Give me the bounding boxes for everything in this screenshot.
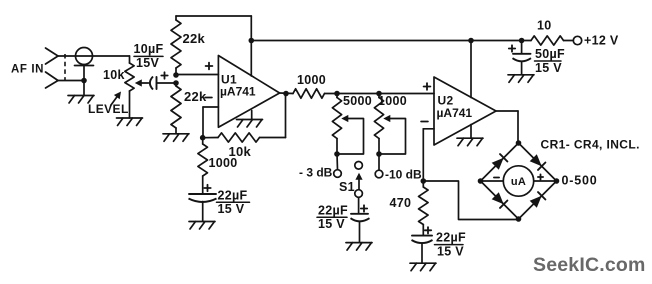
capacitor C4 22uF [412, 236, 433, 244]
label -10dB [385, 168, 422, 182]
node U1 output [283, 91, 289, 97]
ground C3 [346, 243, 372, 251]
svg-text:15V: 15V [136, 56, 160, 70]
jack J1 sleeve bar [75, 65, 94, 67]
svg-text:15 V: 15 V [437, 245, 464, 259]
wire feedback to output [285, 94, 287, 138]
wire to U1 noninverting input [176, 74, 218, 76]
meter minus marker [494, 177, 499, 179]
svg-text:22k: 22k [183, 31, 206, 46]
wire U2 V- pin [470, 125, 472, 139]
svg-text:15 V: 15 V [318, 217, 345, 231]
ground U1 [237, 120, 263, 128]
switch S1 pole arrow [355, 173, 362, 190]
switch S1 center contact [355, 162, 363, 170]
resistor R5 1000 [198, 138, 208, 194]
capacitor C1 10uF curved plate [150, 77, 153, 90]
resistor R9 470 [419, 181, 429, 235]
svg-text:-10 dB: -10 dB [385, 168, 422, 182]
label 5000 [343, 94, 372, 108]
svg-text:S1: S1 [339, 180, 355, 194]
svg-text:50µF: 50µF [535, 47, 565, 61]
node bridge left [478, 178, 484, 184]
svg-text:uA: uA [511, 176, 526, 188]
svg-text:15 V: 15 V [535, 61, 562, 75]
label 22uF 15V C4 [435, 231, 467, 259]
wire U2 V+ supply [470, 41, 472, 98]
svg-text:- 3 dB: - 3 dB [299, 166, 333, 180]
wire to +12V terminal [564, 40, 574, 42]
label 10uF 15V [134, 42, 164, 70]
label LEVEL leader arrow [111, 92, 121, 106]
wire U1 output [280, 92, 293, 95]
node 1000 pot bottom [376, 151, 382, 157]
jack J1 bottom contact [46, 72, 85, 88]
svg-text:22µF: 22µF [318, 204, 348, 218]
svg-text:22k: 22k [184, 89, 207, 104]
ground level pot [117, 118, 143, 126]
wire bridge arm bottom-right [519, 181, 557, 219]
svg-text:22µF: 22µF [436, 231, 466, 245]
potentiometer R8 1000 [374, 94, 383, 155]
potentiometer R1 10k LEVEL [125, 63, 134, 91]
terminal +12V [573, 36, 581, 44]
U1 minus input marker [205, 97, 212, 99]
meter plus marker [538, 174, 543, 179]
label LEVEL [88, 102, 129, 116]
node 5000 pot tap [334, 91, 340, 97]
resistor R4 10k feedback [203, 133, 286, 142]
switch contact -10dB [375, 170, 383, 178]
label 22uF 15V C3 [317, 204, 348, 231]
wire U1 V+ supply [250, 16, 252, 76]
meter M1 uA [503, 166, 533, 196]
wire bridge left to meter [481, 180, 504, 182]
node 1000 pot tap [376, 91, 382, 97]
wire U1 V- pin [251, 111, 253, 120]
svg-text:22µF: 22µF [218, 189, 248, 203]
label 0-500 [562, 174, 598, 188]
jack J1 dashed linkage [64, 54, 66, 81]
wire pot top lead [129, 56, 131, 63]
wire U1 inverting input [203, 107, 218, 138]
label S1 [339, 180, 355, 194]
pot R8 wiper loop [379, 115, 406, 154]
switch contact -3dB [334, 170, 342, 178]
wire to -3dB contact [336, 154, 339, 170]
ground C2 [189, 222, 215, 230]
resistor R10 10 ohm [531, 36, 564, 45]
wire meter to bridge right [534, 180, 557, 182]
node divider upper [173, 72, 179, 78]
svg-text:µA741: µA741 [437, 106, 473, 120]
jack J1 top contact [46, 48, 59, 64]
node V+ rail branch U2 [468, 38, 474, 44]
svg-text:5000: 5000 [343, 94, 372, 108]
svg-text:1000: 1000 [378, 94, 407, 108]
switch S1 common [355, 190, 363, 198]
wire S1 to C3 [358, 197, 360, 213]
svg-text:LEVEL: LEVEL [88, 102, 129, 116]
op-amp U1 triangle [218, 56, 279, 128]
wire rail to C5 [521, 41, 523, 54]
capacitor C5 50uF [513, 54, 532, 62]
capacitor C4 plus [425, 227, 431, 233]
node bridge bottom [516, 216, 522, 222]
diode CR2 [530, 154, 546, 170]
ground U2 [457, 138, 483, 146]
wire bridge arm top-left [481, 143, 519, 181]
wire U2 output [496, 111, 518, 143]
wire bridge arm top-right [519, 143, 557, 181]
node V+ rail branch U1 [249, 38, 255, 44]
ground jack [68, 96, 94, 104]
node 50uF branch [519, 38, 525, 44]
node 5000 pot bottom [334, 151, 340, 157]
capacitor C1 polarity plus [161, 72, 167, 78]
ground divider [163, 134, 189, 142]
label 22uF 15V C2 [217, 189, 250, 216]
wire C1 to divider node [157, 82, 177, 84]
svg-text:10µF: 10µF [134, 42, 164, 56]
U2 minus input marker [421, 121, 428, 123]
node bridge right [554, 178, 560, 184]
capacitor C3 plus [361, 205, 367, 211]
wire to -10dB contact [378, 154, 380, 170]
svg-text:SeekIC.com: SeekIC.com [533, 254, 646, 276]
U2 plus input marker [424, 83, 431, 90]
svg-text:470: 470 [390, 196, 412, 210]
node U2 feedback junction [421, 178, 427, 184]
ground C5 [508, 75, 534, 83]
svg-text:+12 V: +12 V [584, 34, 619, 48]
label U1 [221, 73, 237, 87]
op-amp U2 triangle [434, 77, 496, 145]
label +12V [584, 34, 619, 48]
svg-text:CR1- CR4, INCL.: CR1- CR4, INCL. [541, 138, 640, 152]
label 1000 pot [378, 94, 407, 108]
label 22k upper [183, 31, 206, 46]
potentiometer R7 5000 [332, 94, 341, 155]
wire jack tip to level pot [58, 55, 130, 57]
label uA meter [511, 176, 526, 188]
diode CR1 [492, 154, 508, 170]
svg-text:1000: 1000 [209, 156, 238, 170]
pot R1 wiper arrow [135, 79, 149, 86]
label 1000 R6 [297, 73, 326, 87]
capacitor C2 22uF [189, 194, 217, 202]
capacitor C2 22uF plus [204, 185, 210, 191]
svg-text:10k: 10k [103, 68, 125, 82]
label 50uF 15V [535, 47, 566, 75]
wire C4 to ground [421, 243, 423, 263]
label 22k lower [184, 89, 207, 104]
wire signal to U2 [325, 93, 435, 95]
diode CR4 [530, 192, 546, 208]
svg-text:1000: 1000 [297, 73, 326, 87]
node bridge top [516, 140, 522, 146]
diode CR3 [492, 192, 508, 208]
node jack sleeve junction [81, 78, 87, 84]
capacitor C3 22uF [351, 214, 370, 222]
wire pot bottom lead [129, 91, 131, 118]
resistor R2 22k upper [171, 16, 181, 75]
svg-text:AF IN: AF IN [11, 64, 44, 76]
wire bridge arm bottom-left [481, 181, 519, 219]
wire feedback to bridge bottom [423, 181, 518, 220]
capacitor C1 straight plate [156, 77, 158, 89]
label 10k feedback [229, 144, 252, 159]
label CR1-CR4 INCL [541, 138, 640, 152]
ground C4 [410, 263, 436, 271]
label U2 [438, 94, 454, 108]
label uA741 U1 [220, 85, 256, 99]
label 470 [390, 196, 412, 210]
svg-text:15 V: 15 V [218, 202, 245, 216]
resistor R6 1000 series [293, 89, 325, 98]
wire top rail [176, 15, 251, 17]
node feedback junction [200, 135, 206, 141]
label AF IN [11, 64, 44, 76]
jack J1 bushing circle [76, 48, 93, 65]
wire U2 inverting input [423, 129, 434, 181]
svg-text:0-500: 0-500 [562, 174, 598, 188]
wire C2 to ground [202, 202, 204, 222]
label 10 [537, 19, 552, 33]
capacitor C5 plus [509, 45, 515, 51]
watermark SeekIC.com [533, 254, 646, 276]
wire C5 to ground [521, 62, 523, 75]
label -3dB [299, 166, 333, 180]
U1 plus input marker [206, 63, 213, 70]
wire to ground [83, 81, 85, 96]
resistor R3 22k lower [171, 83, 181, 134]
node divider cap [173, 80, 179, 86]
label 10k [103, 68, 125, 82]
wire +12V rail [251, 40, 531, 42]
svg-text:10: 10 [537, 19, 552, 33]
label 1000 R5 [209, 156, 238, 170]
label uA741 U2 [437, 106, 473, 120]
pot R7 wiper loop [337, 115, 364, 154]
wire C3 to ground [359, 221, 361, 242]
wire jack sleeve down [83, 66, 85, 81]
svg-text:µA741: µA741 [220, 85, 256, 99]
